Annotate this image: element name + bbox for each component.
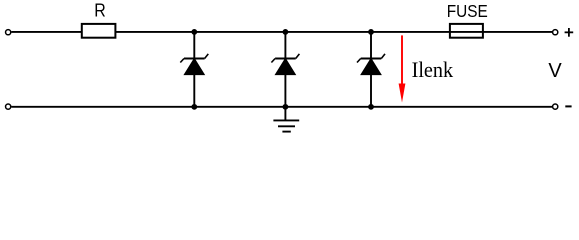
svg-text:V: V	[548, 60, 562, 82]
svg-text:R: R	[94, 1, 106, 21]
svg-text:Ilenk: Ilenk	[412, 57, 454, 82]
svg-text:FUSE: FUSE	[447, 1, 488, 21]
